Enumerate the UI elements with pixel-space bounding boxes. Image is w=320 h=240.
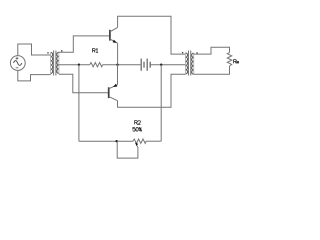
battery V2	[141, 59, 150, 71]
wire node to Q2 emitter	[117, 65, 119, 85]
wire T1 secondary top to Q1 base	[59, 36, 109, 52]
transformer T1	[47, 50, 62, 75]
wire T2 secondary top to Rm	[194, 47, 230, 54]
node pot junction	[115, 140, 117, 142]
label R1	[93, 49, 99, 53]
wire battery to T2 center tap	[150, 64, 185, 66]
resistor body R2	[133, 139, 146, 143]
ac source V1	[10, 56, 25, 71]
resistor Rm	[227, 52, 231, 66]
label 50%	[133, 127, 142, 131]
node bias junction	[78, 63, 80, 65]
node emitter junction	[116, 63, 118, 65]
transistor Q2	[109, 84, 118, 101]
wire T1 center tap to R1	[59, 64, 90, 66]
wire source top to T1 primary top	[18, 44, 51, 56]
wiper loop wire	[117, 141, 138, 158]
wire bias vertical	[78, 65, 80, 142]
wire Q2 collector to T2 primary bottom	[118, 74, 186, 107]
wiper arrow	[135, 143, 138, 146]
label R2	[135, 121, 141, 125]
wire Q1 emitter to node	[117, 43, 119, 64]
transistor Q1	[110, 27, 118, 43]
resistor R1	[90, 63, 103, 67]
node battery junction	[160, 63, 162, 65]
wire Rm bottom to T2 secondary bottom	[194, 66, 230, 74]
label Rm	[234, 60, 239, 64]
potentiometer R2	[79, 140, 133, 142]
wire Q1 collector to top rail to T2 primary top	[118, 16, 186, 54]
wire T1 secondary bottom to Q2 base	[59, 74, 108, 93]
wire source bottom to T1 primary bottom	[18, 70, 51, 81]
wire R1 to node	[103, 64, 141, 66]
wire R2 right lead	[146, 140, 161, 142]
wire battery junction down to R2	[160, 65, 162, 142]
transformer T2	[182, 51, 198, 76]
